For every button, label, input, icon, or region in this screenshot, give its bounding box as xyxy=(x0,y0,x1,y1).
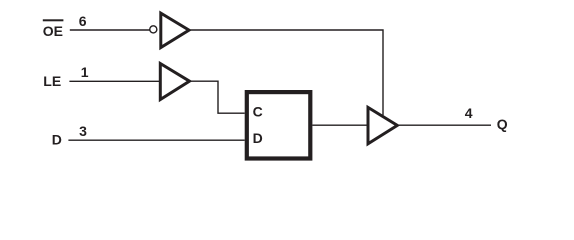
svg-text:4: 4 xyxy=(465,105,473,121)
svg-text:6: 6 xyxy=(79,13,87,29)
svg-text:OE: OE xyxy=(43,23,63,39)
svg-text:D: D xyxy=(253,130,263,146)
svg-text:D: D xyxy=(52,132,62,148)
svg-text:3: 3 xyxy=(79,123,87,139)
svg-text:Q: Q xyxy=(497,116,508,132)
svg-text:LE: LE xyxy=(43,73,61,89)
svg-text:1: 1 xyxy=(81,64,89,80)
svg-text:C: C xyxy=(253,103,263,119)
